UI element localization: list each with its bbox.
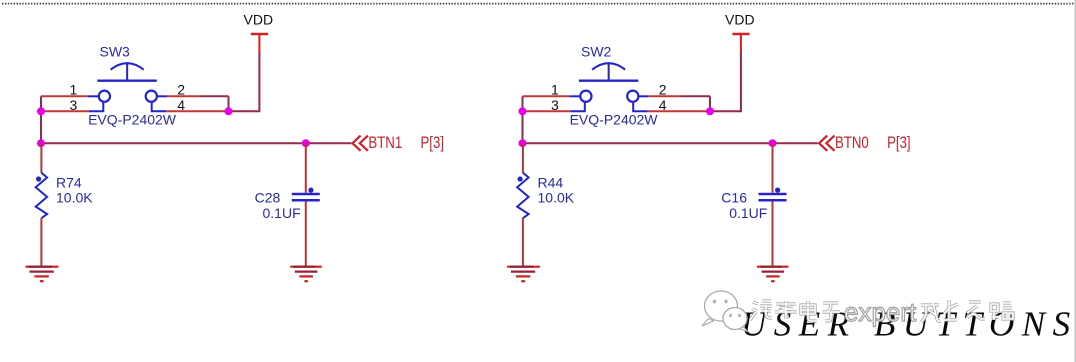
wire SW3 pin4 to junction bbox=[166, 110, 228, 112]
svg-text:VDD: VDD bbox=[244, 12, 274, 28]
svg-text:R44: R44 bbox=[538, 175, 564, 191]
junction main net at C28 bbox=[302, 139, 310, 147]
svg-text:SW2: SW2 bbox=[581, 44, 612, 60]
SW2 pin 1 stub bbox=[569, 95, 579, 97]
wire left vertical node to main net (right) bbox=[522, 96, 524, 143]
wire main net to C16 bbox=[772, 143, 774, 192]
switch SW3 bbox=[70, 44, 186, 128]
SW3 pin 3 stub bbox=[89, 103, 104, 112]
power VDD (right) bbox=[725, 12, 755, 55]
svg-text:VDD: VDD bbox=[725, 12, 755, 28]
wire SW2 pin3 to left node bbox=[523, 110, 571, 112]
svg-text:USER: USER bbox=[741, 304, 857, 343]
junction at SW2 pins 2/4 bbox=[706, 107, 714, 115]
svg-text:EVQ-P2402W: EVQ-P2402W bbox=[88, 111, 177, 127]
junction main net at R44 bbox=[519, 139, 527, 147]
svg-text:10.0K: 10.0K bbox=[56, 190, 93, 206]
svg-text:10.0K: 10.0K bbox=[538, 190, 575, 206]
SW3 pin 1 stub bbox=[88, 95, 98, 97]
wire C28 to ground bbox=[305, 201, 307, 266]
power VDD (left) bbox=[244, 12, 274, 55]
port BTN0 P[3] bbox=[819, 133, 911, 152]
wire main net to R44 bbox=[522, 143, 524, 173]
junction at SW3 pins 2/4 bbox=[225, 107, 233, 115]
svg-text:0.1UF: 0.1UF bbox=[729, 205, 767, 221]
svg-text:4: 4 bbox=[177, 97, 185, 113]
svg-text:3: 3 bbox=[551, 97, 559, 113]
svg-text:1: 1 bbox=[551, 82, 559, 98]
capacitor C28 bbox=[255, 188, 320, 221]
junction at SW3 pins 1/3 bbox=[37, 107, 45, 115]
wire SW2 pin4 to junction bbox=[648, 110, 710, 112]
SW3 pin 2 stub bbox=[158, 95, 167, 97]
port BTN1 P[3] bbox=[353, 133, 445, 152]
svg-text:BTN1: BTN1 bbox=[368, 133, 402, 152]
resistor R74 bbox=[36, 173, 94, 219]
wire main net BTN1 bbox=[41, 142, 351, 144]
wire main net to C28 bbox=[305, 143, 307, 192]
svg-text:P[3]: P[3] bbox=[887, 133, 911, 152]
wire C16 to ground bbox=[772, 201, 774, 266]
watermark WeChat logo bbox=[702, 291, 748, 332]
svg-text:BTN0: BTN0 bbox=[835, 133, 869, 152]
svg-text:EVQ-P2402W: EVQ-P2402W bbox=[570, 111, 659, 127]
SW2 pin 4 stub bbox=[633, 103, 648, 112]
junction main net at R74 bbox=[37, 139, 45, 147]
junction at SW2 pins 1/3 bbox=[519, 107, 527, 115]
wire SW3 pin2 to junction bbox=[167, 96, 229, 111]
svg-text:2: 2 bbox=[659, 82, 667, 98]
resistor R44 bbox=[517, 173, 575, 219]
wire SW3 pin3 to left node bbox=[41, 110, 89, 112]
svg-text:1: 1 bbox=[70, 82, 78, 98]
wire main net to R74 bbox=[40, 143, 42, 173]
svg-text:0.1UF: 0.1UF bbox=[263, 205, 301, 221]
wire main net BTN0 bbox=[523, 142, 818, 144]
wire VDD to SW2 pins 2/4 junction bbox=[710, 53, 742, 111]
SW2 pin 3 stub bbox=[570, 103, 585, 112]
wire SW2 pin1 to left node bbox=[523, 95, 570, 97]
wire R44 to ground bbox=[522, 218, 524, 267]
svg-text:2: 2 bbox=[177, 82, 185, 98]
wire left vertical node to main net bbox=[40, 96, 42, 143]
svg-text:4: 4 bbox=[659, 97, 667, 113]
watermark text: 成长之路 (stylised strokes) bbox=[921, 300, 1013, 322]
SW3 pin 4 stub bbox=[152, 103, 167, 112]
wire SW3 pin1 to left node bbox=[41, 95, 88, 97]
SW2 pin 2 stub bbox=[639, 95, 648, 97]
ground below R74 bbox=[26, 267, 59, 282]
switch SW2 bbox=[551, 44, 667, 128]
svg-text:C16: C16 bbox=[721, 189, 747, 205]
capacitor C16 bbox=[721, 188, 786, 221]
svg-text:P[3]: P[3] bbox=[421, 133, 445, 152]
svg-text:expert: expert bbox=[844, 297, 917, 327]
ground below C16 bbox=[757, 267, 789, 282]
junction main net at C16 bbox=[769, 139, 777, 147]
wire SW2 pin2 to junction bbox=[648, 96, 710, 111]
ground below C28 bbox=[290, 267, 322, 282]
watermark text: 汽车电子 (stylised strokes) bbox=[750, 301, 840, 321]
ground below R44 bbox=[507, 267, 540, 282]
wire R74 to ground bbox=[40, 218, 42, 267]
svg-text:C28: C28 bbox=[255, 189, 281, 205]
svg-text:3: 3 bbox=[70, 97, 78, 113]
svg-text:SW3: SW3 bbox=[100, 44, 131, 60]
wire VDD to SW3 pins 2/4 junction bbox=[229, 53, 261, 111]
svg-text:R74: R74 bbox=[56, 175, 82, 191]
